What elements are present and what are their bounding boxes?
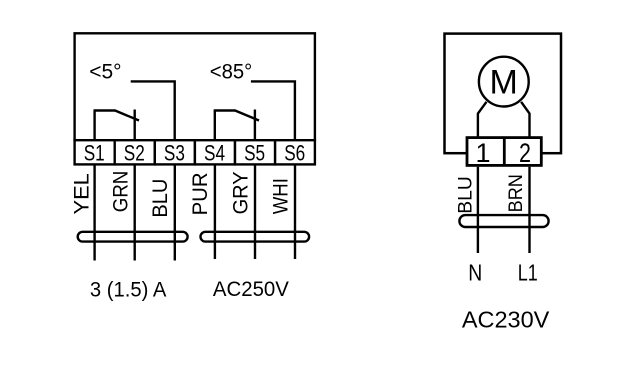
motor lead left: [478, 102, 487, 139]
terminal S4: [195, 140, 235, 165]
switch enclosure box: [75, 33, 315, 140]
switch SW2 contact stub from S5: [254, 110, 256, 141]
wire from S3: [174, 164, 176, 260]
svg-text:L1: L1: [518, 260, 538, 286]
switch SW2 blade: [214, 111, 259, 121]
wire from S6: [294, 164, 296, 259]
svg-text:BLU: BLU: [455, 176, 477, 214]
terminal S5: [235, 140, 275, 165]
svg-text:M: M: [490, 64, 518, 102]
cable grommet right: [459, 215, 548, 227]
terminal S6: [275, 140, 315, 165]
svg-text:S4: S4: [204, 141, 225, 166]
svg-text:S6: S6: [284, 141, 305, 166]
actuator enclosure box: [445, 34, 562, 154]
wire from terminal 1: [477, 167, 479, 253]
svg-text:BRN: BRN: [505, 174, 527, 212]
wire from S4: [214, 164, 216, 259]
switch SW2 contact from S6: [251, 81, 295, 140]
svg-text:1: 1: [475, 138, 490, 168]
svg-text:BLU: BLU: [148, 179, 172, 218]
terminal block 1 2: [467, 138, 541, 166]
svg-text:3 (1.5) A: 3 (1.5) A: [90, 278, 167, 302]
wire from S1: [93, 164, 95, 260]
motor M circle: [479, 57, 529, 107]
svg-text:AC230V: AC230V: [462, 307, 550, 333]
terminal S1: [75, 140, 115, 165]
svg-text:GRN: GRN: [109, 171, 133, 213]
switch SW1 contact stub from S2: [133, 110, 135, 141]
svg-text:WHI: WHI: [269, 178, 293, 214]
terminal divider: [503, 138, 506, 166]
wire from S2: [133, 164, 135, 260]
svg-text:GRY: GRY: [229, 171, 253, 214]
svg-text:<85°: <85°: [210, 61, 253, 84]
svg-text:S5: S5: [244, 141, 265, 166]
svg-text:PUR: PUR: [188, 172, 212, 215]
cable grommet left: [78, 232, 188, 242]
switch SW2 common stub from S4: [214, 111, 216, 141]
svg-text:YEL: YEL: [69, 173, 93, 214]
svg-text:S2: S2: [124, 141, 145, 166]
svg-text:S3: S3: [164, 141, 185, 166]
svg-text:N: N: [468, 260, 482, 286]
wire from terminal 2: [528, 167, 530, 253]
wire from S5: [254, 164, 256, 259]
terminal S3: [155, 140, 195, 165]
switch SW1 common stub from S1: [93, 111, 95, 141]
switch SW1 blade: [94, 111, 140, 121]
svg-text:<5°: <5°: [89, 61, 121, 84]
terminal S2: [115, 140, 155, 165]
svg-text:S1: S1: [84, 141, 105, 166]
switch SW1 contact from S3: [131, 81, 175, 140]
svg-text:2: 2: [519, 138, 531, 168]
motor lead right: [521, 102, 529, 139]
cable grommet middle: [201, 232, 310, 242]
svg-text:AC250V: AC250V: [213, 277, 290, 301]
